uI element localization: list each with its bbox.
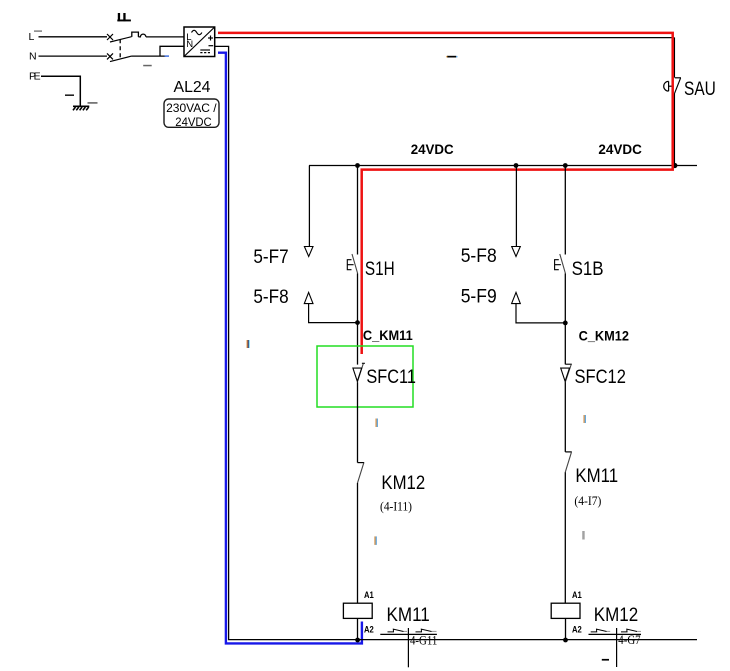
breaker label LL	[117, 13, 131, 21]
power supply rating box	[164, 99, 219, 127]
off-page arrow down 5-F7	[304, 247, 313, 257]
node dot SAU junction	[672, 163, 677, 168]
breaker LL blade N-pole	[110, 56, 132, 62]
svg-text:SFC11: SFC11	[366, 367, 416, 388]
svg-text:A1: A1	[572, 590, 582, 601]
red highlight wire +24V	[218, 33, 673, 354]
wire number tick right branch lower	[582, 531, 584, 540]
svg-text:AL24: AL24	[174, 79, 211, 96]
breaker LL contact cross N-pole	[107, 53, 113, 59]
svg-text:KM12: KM12	[381, 473, 425, 494]
svg-text:S1H: S1H	[365, 259, 395, 280]
power supply U1 AL24 box	[184, 27, 215, 57]
wire number dash on +24V wire	[446, 56, 457, 58]
coil KM12	[551, 603, 580, 618]
minus polarity dash	[602, 659, 609, 661]
wire number tick left of green box	[247, 340, 250, 348]
coil KM11	[343, 603, 372, 618]
svg-text:KM12: KM12	[594, 605, 638, 626]
emergency stop SAU blade	[674, 78, 680, 94]
svg-text:5-F8: 5-F8	[253, 287, 288, 308]
wire S1H to node	[357, 273, 359, 364]
svg-text:N: N	[29, 51, 37, 63]
wire number tick below green box	[376, 419, 378, 428]
wire N phase	[39, 55, 108, 57]
node dot S1H feed	[355, 163, 360, 168]
NC contact KM11 bar	[565, 451, 572, 453]
svg-text:4-G11: 4-G11	[410, 633, 437, 647]
breaker LL magnetic element (round bump)	[138, 34, 146, 37]
off-page arrow up 5-F9	[512, 292, 521, 303]
wire S1H branch upper	[357, 166, 359, 255]
contact mirror KM11 rail	[380, 633, 437, 635]
ground symbol	[73, 106, 89, 110]
node PE label	[29, 70, 41, 82]
wire SFC11 to KM12 contact	[357, 382, 359, 462]
breaker LL thermal element (square bump)	[132, 32, 139, 37]
wire +24V from PSU to right	[215, 37, 675, 39]
svg-text:5-F9: 5-F9	[461, 286, 497, 307]
power supply AC sine	[192, 30, 202, 34]
svg-text:5-F7: 5-F7	[253, 247, 288, 268]
wire 0V black from PSU minus	[215, 46, 697, 639]
node dot KM11 A2	[355, 638, 360, 643]
emergency stop SAU contact bar	[675, 77, 681, 79]
NC contact KM12 blade	[358, 463, 364, 483]
power supply plus pin	[208, 36, 213, 41]
wire left drop to 5-F7 arrow	[308, 166, 310, 247]
wire N to PSU	[132, 46, 185, 56]
pushbutton S1H blade	[352, 254, 358, 273]
bus 24VDC horizontal	[309, 165, 697, 167]
wire number tick right branch upper	[584, 415, 586, 423]
off-page arrow down 5-F8 right	[512, 247, 521, 257]
power supply DC symbol	[200, 49, 210, 51]
contact mirror KM12 divider	[616, 628, 618, 667]
off-page arrow up 5-F8	[304, 292, 313, 303]
svg-text:(4-I7): (4-I7)	[574, 494, 601, 508]
blue highlight wire 0V	[218, 53, 362, 644]
wire coil KM12 to bus	[565, 618, 567, 640]
wire S1B branch upper	[564, 166, 566, 255]
contact mirror KM11 glyph 1	[388, 629, 404, 632]
svg-text:SFC12: SFC12	[575, 367, 626, 388]
node N label	[29, 51, 37, 63]
wire N blue stub	[165, 55, 170, 56]
breaker mechanical link (dashed)	[119, 39, 121, 58]
svg-text:230VAC /: 230VAC /	[166, 101, 217, 115]
pushbutton S1B blade	[560, 254, 566, 273]
svg-text:5-F8: 5-F8	[461, 246, 497, 267]
svg-text:(4-I11): (4-I11)	[380, 499, 412, 513]
flow switch SFC11 blade	[357, 364, 363, 383]
wire S1B to node	[564, 273, 566, 364]
wire number dash near ground	[88, 102, 98, 104]
flow switch SFC12 tick	[565, 363, 572, 365]
svg-text:24VDC: 24VDC	[175, 115, 212, 129]
svg-text:A2: A2	[572, 625, 582, 636]
svg-text:C_KM11: C_KM11	[363, 328, 413, 343]
wire PE	[41, 76, 80, 106]
flow switch SFC11 paddle triangle	[353, 368, 362, 381]
wire number tick left branch lower	[374, 536, 376, 545]
svg-text:L: L	[29, 31, 35, 43]
wire 5-F9 arrow to S1B branch	[516, 304, 565, 323]
power supply minus pin	[209, 45, 214, 47]
breaker LL blade L-pole	[110, 37, 132, 42]
svg-text:C_KM12: C_KM12	[579, 328, 629, 343]
node dot KM12 A2	[563, 638, 568, 643]
svg-text:A2: A2	[364, 625, 374, 636]
svg-text:N: N	[186, 39, 193, 50]
svg-text:PE: PE	[29, 70, 41, 82]
contact mirror KM12 glyph 2	[621, 629, 637, 632]
wire number dash above L	[34, 30, 42, 31]
breaker LL contact cross L-pole	[107, 34, 113, 40]
node dot S1B feed	[563, 163, 568, 168]
PLC highlight box (green)	[317, 346, 413, 407]
svg-text:A1: A1	[364, 590, 374, 601]
wire number dash below breaker	[143, 65, 152, 67]
wire L to PSU	[146, 36, 184, 38]
power supply diagonal	[184, 27, 215, 57]
contact mirror KM12 rail	[589, 633, 642, 635]
svg-text:S1B: S1B	[572, 259, 604, 280]
emergency stop SAU stem	[669, 85, 674, 87]
wire right drop from bus to 5-F8 arrow	[515, 166, 517, 247]
flow switch SFC12 blade	[565, 365, 571, 383]
wire L phase	[39, 36, 108, 38]
flow switch SFC11 tick	[362, 362, 365, 364]
svg-text:KM11: KM11	[387, 605, 430, 626]
node dot 5-F8 drop	[514, 163, 519, 168]
NC contact KM11 blade	[565, 452, 571, 472]
wire KM11 contact to coil	[564, 472, 566, 603]
svg-text:KM11: KM11	[575, 466, 618, 487]
wire SAU to bus	[673, 94, 675, 166]
wire +24V right drop upper	[673, 38, 675, 78]
flow switch SFC12 paddle triangle	[561, 368, 570, 381]
wire 5-F8 arrow to S1H branch	[309, 304, 358, 323]
contact mirror KM11 glyph 2	[416, 629, 432, 632]
svg-text:SAU: SAU	[684, 79, 716, 100]
node dot C_KM11	[355, 320, 360, 325]
pushbutton S1B actuator E	[555, 260, 561, 270]
wire number dash near PE	[65, 94, 74, 96]
wire KM12 contact to coil	[357, 483, 359, 603]
wire SFC12 to KM11 contact	[564, 382, 566, 452]
svg-text:4-G7: 4-G7	[618, 633, 640, 647]
contact mirror KM11 divider	[407, 628, 409, 667]
contact mirror KM12 glyph 1	[591, 629, 607, 632]
emergency stop SAU mushroom head	[664, 81, 669, 91]
node L label	[29, 31, 35, 43]
pushbutton S1H actuator E	[347, 260, 353, 270]
svg-text:24VDC: 24VDC	[598, 141, 642, 157]
node dot C_KM12	[563, 321, 568, 326]
NC contact KM12 bar	[358, 462, 365, 464]
svg-text:24VDC: 24VDC	[411, 141, 454, 157]
wire coil KM11 to bus	[357, 618, 359, 640]
